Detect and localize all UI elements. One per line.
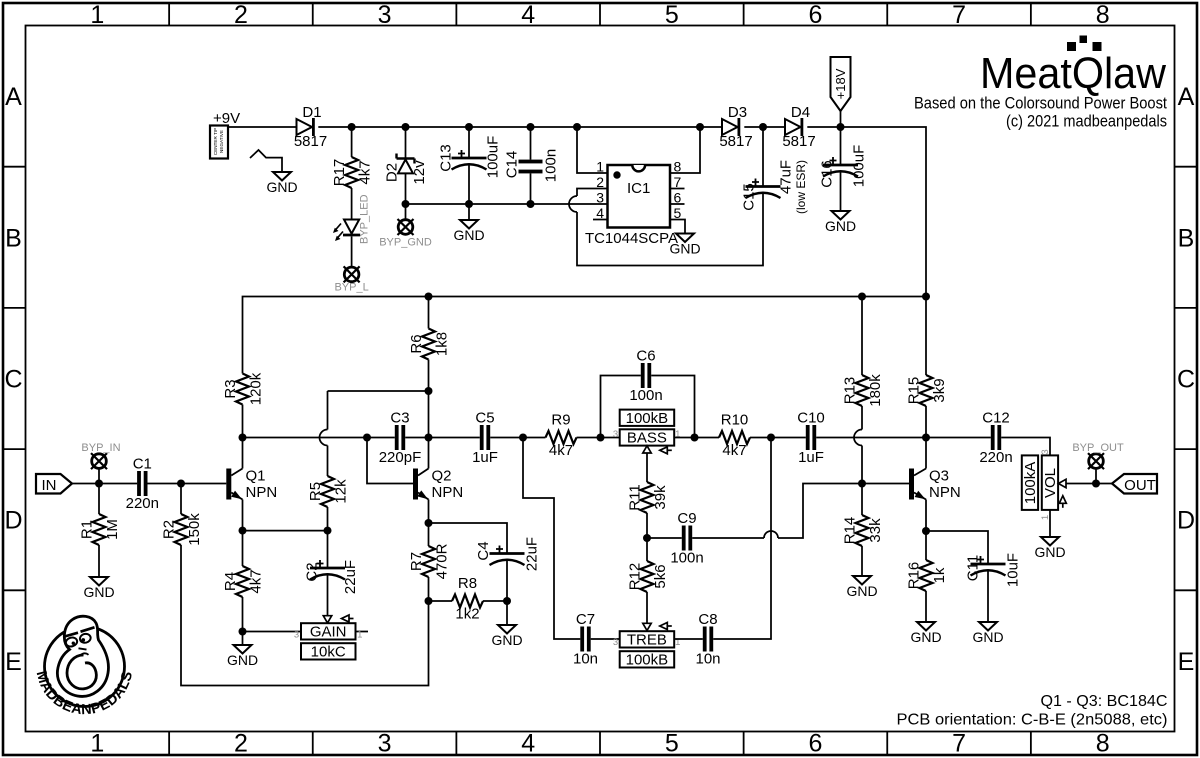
wire D1 to D3 rail — [318, 126, 722, 128]
svg-text:100n: 100n — [670, 550, 703, 567]
junction — [519, 434, 527, 442]
svg-text:4: 4 — [521, 1, 535, 29]
diode D3 — [722, 119, 738, 135]
resistor R14 — [856, 515, 869, 546]
wire C7 to TREB — [591, 638, 620, 640]
wire R8 right stub — [483, 600, 507, 602]
wire D2 to gnd rail — [405, 173, 407, 204]
svg-text:R10: R10 — [721, 412, 749, 429]
junction — [239, 434, 247, 442]
svg-text:R12: R12 — [627, 563, 644, 591]
svg-text:D2: D2 — [384, 163, 401, 182]
svg-text:PCB orientation: C-B-E (2n5088: PCB orientation: C-B-E (2n5088, etc) — [897, 712, 1168, 729]
capacitor C9 — [682, 526, 686, 551]
pad BYP_IN — [92, 454, 107, 469]
svg-text:GAIN: GAIN — [310, 623, 347, 640]
wire C13 bottom — [468, 164, 470, 205]
wire R17 top — [351, 127, 353, 157]
svg-text:1: 1 — [357, 630, 362, 641]
wire BASS wiper to R11 — [646, 453, 648, 482]
svg-text:39k: 39k — [652, 485, 669, 510]
wire BASS to C6 right — [674, 437, 719, 439]
ground jack — [273, 172, 291, 181]
wire R1 bottom — [98, 545, 100, 577]
signal line Q1 collector to C3 — [243, 437, 395, 439]
junction — [922, 434, 930, 442]
wire VOL wiper to OUT — [1066, 483, 1112, 485]
resistor R9 — [546, 431, 577, 444]
svg-text:BASS: BASS — [627, 430, 667, 447]
wire D2 top — [405, 127, 407, 158]
wire C16 bottom — [840, 171, 842, 212]
svg-text:4: 4 — [521, 730, 535, 758]
capacitor C13 — [452, 157, 487, 160]
junction — [643, 534, 651, 542]
resistor R7 — [422, 546, 435, 577]
wire R16 top — [925, 531, 927, 560]
ground C4/R8 — [498, 625, 516, 634]
pad BYP_GND — [398, 220, 413, 235]
wire C5 node to treble line — [523, 438, 580, 640]
wire hop pin2 over pin3 — [569, 196, 577, 212]
svg-text:180k: 180k — [867, 374, 884, 407]
svg-text:R7: R7 — [408, 552, 425, 571]
svg-text:CENTER TIP: CENTER TIP — [213, 128, 218, 155]
svg-text:BYP_L: BYP_L — [334, 282, 368, 294]
junction — [858, 480, 866, 488]
svg-text:3: 3 — [294, 630, 299, 641]
potentiometer TREB wiper arrow — [643, 623, 651, 630]
IC1 pin4 stub — [593, 219, 608, 221]
junction — [922, 527, 930, 535]
svg-text:NPN: NPN — [246, 484, 278, 501]
wire R14 top — [861, 484, 863, 516]
signal line R10 to C10 — [750, 437, 806, 439]
svg-text:5817: 5817 — [782, 133, 815, 150]
svg-text:5k6: 5k6 — [652, 564, 669, 588]
svg-text:Based on the Colorsound Power: Based on the Colorsound Power Boost — [914, 94, 1167, 113]
svg-text:1uF: 1uF — [472, 449, 498, 466]
wire R3 bottom — [242, 405, 244, 438]
wire emitter to C11 — [926, 531, 988, 564]
capacitor C14 — [519, 160, 543, 164]
capacitor C16 — [823, 164, 858, 167]
svg-text:C14: C14 — [504, 151, 521, 179]
svg-text:220pF: 220pF — [379, 449, 422, 466]
jack sleeve to ground — [250, 150, 282, 172]
svg-text:C13: C13 — [438, 144, 455, 172]
transistor Q2 — [413, 469, 418, 500]
wire R4 bottom — [242, 597, 244, 632]
svg-text:1uF: 1uF — [798, 449, 824, 466]
capacitor C6 — [641, 363, 645, 388]
IC1 pin6 stub — [670, 203, 685, 205]
svg-text:1k8: 1k8 — [434, 332, 451, 356]
resistor R17 — [345, 157, 358, 188]
ground C11 — [979, 622, 997, 631]
wire C2 to GAIN wiper — [327, 574, 329, 616]
svg-text:C4: C4 — [475, 541, 492, 560]
svg-text:E: E — [1178, 648, 1195, 676]
wire to BYP_GND — [405, 204, 407, 220]
svg-text:8: 8 — [1096, 730, 1110, 758]
svg-text:GND: GND — [83, 584, 114, 600]
svg-text:BYP_LED: BYP_LED — [359, 194, 371, 244]
svg-text:R14: R14 — [842, 517, 859, 545]
wire C4 bottom — [506, 559, 508, 601]
wire emitter to C4 — [429, 523, 508, 554]
resistor R15 — [920, 375, 933, 406]
svg-text:R8: R8 — [458, 575, 477, 592]
svg-text:BYP_OUT: BYP_OUT — [1072, 442, 1124, 454]
wire IC1 pin2 lower — [577, 193, 763, 266]
wire C2 top — [327, 531, 329, 568]
capacitor C7 — [580, 627, 584, 652]
svg-text:Q1 - Q3: BC184C: Q1 - Q3: BC184C — [1041, 693, 1168, 710]
wire hop R5 over signal line — [320, 430, 328, 446]
potentiometer TREB 100kB — [620, 631, 675, 647]
wire R1 top — [98, 484, 100, 515]
svg-text:D4: D4 — [791, 104, 810, 121]
LED BYP_LED — [344, 220, 359, 234]
svg-text:100n: 100n — [543, 149, 560, 182]
svg-text:100uF: 100uF — [485, 136, 502, 179]
capacitor C3 — [395, 425, 399, 450]
junction — [696, 123, 704, 131]
wire R13 lower — [861, 406, 863, 430]
wire Q1 emitter — [242, 500, 244, 531]
svg-text:3: 3 — [1040, 449, 1051, 454]
wire Q2 base drop — [367, 438, 413, 484]
svg-text:NEGATIVE: NEGATIVE — [219, 130, 224, 153]
junction — [402, 200, 410, 208]
wire R5 mid — [327, 446, 329, 477]
wire Q1 collector — [242, 438, 244, 469]
wire VOL pin1 to gnd — [1049, 510, 1051, 537]
svg-text:22uF: 22uF — [342, 560, 359, 594]
BASS direction arrow — [660, 447, 668, 454]
wire R7 top — [428, 523, 430, 546]
wire R6 top — [428, 297, 430, 329]
svg-text:GND: GND — [669, 241, 700, 257]
svg-text:R11: R11 — [627, 484, 644, 510]
svg-text:33k: 33k — [867, 518, 884, 543]
ground VOL — [1041, 537, 1059, 546]
GAIN direction arrow — [342, 615, 350, 622]
svg-text:1M: 1M — [104, 519, 121, 540]
svg-text:100kB: 100kB — [626, 651, 669, 668]
svg-text:C11: C11 — [965, 555, 982, 581]
svg-text:E: E — [5, 648, 22, 676]
wire C13 top — [468, 127, 470, 158]
svg-text:+18V: +18V — [833, 68, 848, 99]
svg-text:4: 4 — [596, 205, 604, 221]
connector OUT — [1112, 474, 1157, 494]
resistor R6 — [422, 329, 435, 360]
potentiometer BASS 100kB — [620, 429, 675, 445]
diode D4 — [785, 119, 801, 135]
svg-text:6: 6 — [674, 190, 682, 206]
wire IC1 pin5 — [670, 220, 685, 234]
svg-text:10n: 10n — [695, 651, 720, 668]
junction — [573, 123, 581, 131]
potentiometer BASS wiper arrow — [643, 446, 651, 453]
pad BYP_OUT — [1089, 454, 1104, 469]
resistor R10 — [719, 431, 750, 444]
resistor R11 — [641, 482, 654, 513]
svg-text:B: B — [1178, 224, 1195, 252]
wire Q3 emitter — [925, 500, 927, 532]
capacitor C11 — [971, 563, 1006, 566]
wire R15 top — [925, 297, 927, 376]
svg-text:1: 1 — [596, 159, 604, 175]
wire R7 bottom — [428, 577, 430, 601]
svg-text:R4: R4 — [222, 572, 239, 591]
IC U1 TC1044SCPA — [608, 165, 671, 228]
wire D3 to D4 — [744, 126, 785, 128]
svg-text:VOL: VOL — [1042, 468, 1059, 498]
resistor R16 — [920, 560, 933, 591]
potentiometer VOL 100kA — [1042, 455, 1058, 510]
capacitor C2 — [310, 567, 345, 570]
svg-text:R2: R2 — [161, 520, 178, 539]
svg-text:100kA: 100kA — [1022, 462, 1039, 505]
resistor R2 — [175, 514, 188, 545]
ground R4 — [234, 645, 252, 654]
resistor R5 — [321, 476, 334, 507]
svg-text:R1: R1 — [79, 520, 96, 539]
capacitor C4 — [490, 552, 525, 555]
svg-text:R5: R5 — [307, 482, 324, 501]
svg-text:GND: GND — [227, 652, 258, 668]
wire emitter node — [243, 530, 328, 532]
wire to gnd — [468, 204, 470, 220]
svg-text:2: 2 — [234, 730, 248, 758]
ground R16 — [917, 622, 935, 631]
wire R9 to BASS — [577, 437, 620, 439]
wire IN — [72, 483, 137, 485]
svg-text:100uF: 100uF — [851, 145, 868, 188]
capacitor C1 — [137, 471, 141, 496]
wire R8 left stub — [429, 600, 453, 602]
svg-text:D3: D3 — [728, 104, 747, 121]
svg-text:A: A — [1178, 83, 1195, 111]
wire +18V rail — [243, 297, 927, 374]
svg-text:150k: 150k — [186, 513, 203, 546]
svg-text:C9: C9 — [677, 510, 696, 527]
junction — [503, 597, 511, 605]
svg-text:4k7: 4k7 — [722, 442, 746, 459]
svg-text:3: 3 — [378, 1, 392, 29]
resistor R1 — [93, 514, 106, 545]
wire R6 bottom — [428, 360, 430, 392]
svg-text:Q2: Q2 — [432, 468, 452, 485]
wire D4 to corner — [807, 127, 926, 297]
wire C9 line to base riser — [778, 484, 909, 539]
svg-text:C2: C2 — [304, 562, 321, 581]
svg-text:IC1: IC1 — [627, 180, 650, 197]
wire R11 bottom — [646, 513, 648, 538]
signal line C3 to C5 — [405, 437, 480, 439]
svg-text:C8: C8 — [698, 611, 717, 628]
ground C16 — [832, 211, 850, 220]
wire C1 to base node — [148, 483, 227, 485]
wire to BYP_IN — [98, 468, 100, 483]
ground IC1 pin5 — [676, 234, 694, 243]
wire R2 to R8 node — [181, 545, 429, 686]
svg-text:4k7: 4k7 — [549, 442, 573, 459]
GAIN pin stubs — [356, 631, 369, 633]
connector +18V supply flag — [831, 57, 851, 111]
svg-text:D: D — [4, 507, 22, 535]
svg-text:220n: 220n — [979, 449, 1012, 466]
svg-text:4k7: 4k7 — [248, 569, 265, 593]
junction — [837, 123, 845, 131]
svg-text:BYP_IN: BYP_IN — [81, 442, 120, 454]
ground R14 — [853, 576, 871, 585]
wire to gnd — [242, 632, 244, 646]
junction — [425, 519, 433, 527]
resistor R12 — [641, 561, 654, 592]
svg-text:220n: 220n — [126, 495, 159, 512]
svg-text:C: C — [1177, 366, 1195, 394]
svg-text:5817: 5817 — [294, 133, 327, 150]
wire C14 bottom — [530, 173, 532, 204]
wire C9 left — [647, 537, 682, 539]
wire TREB to C8 — [674, 638, 703, 640]
svg-text:(low ESR): (low ESR) — [794, 160, 808, 214]
svg-text:3k9: 3k9 — [931, 378, 948, 402]
madbeanpedals logo — [45, 616, 125, 706]
wire R13 top — [861, 297, 863, 376]
transistor Q3 — [909, 469, 914, 500]
ground — [460, 220, 478, 229]
svg-text:7: 7 — [674, 174, 682, 190]
wire C9 to hop — [692, 537, 764, 539]
svg-text:GND: GND — [1034, 544, 1065, 560]
svg-text:3: 3 — [613, 637, 618, 648]
wire R12 to TREB wiper — [646, 592, 648, 623]
svg-text:6: 6 — [808, 1, 822, 29]
svg-text:C1: C1 — [133, 456, 152, 473]
svg-text:GND: GND — [266, 179, 297, 195]
svg-text:2: 2 — [596, 174, 604, 190]
transistor Q1 — [226, 469, 231, 500]
junction — [691, 434, 699, 442]
svg-text:B: B — [5, 224, 22, 252]
wire C11 bottom — [987, 570, 989, 623]
svg-text:C5: C5 — [475, 410, 494, 427]
svg-text:OUT: OUT — [1124, 477, 1156, 494]
diode D1 — [297, 119, 313, 135]
wire +9V to D1 — [228, 126, 297, 128]
svg-text:C10: C10 — [797, 410, 825, 427]
svg-text:TREB: TREB — [627, 631, 667, 648]
svg-text:7: 7 — [952, 730, 966, 758]
svg-text:1k: 1k — [931, 567, 948, 583]
svg-text:NPN: NPN — [432, 484, 464, 501]
svg-text:Q3: Q3 — [929, 468, 949, 485]
svg-text:12k: 12k — [333, 479, 350, 504]
svg-text:D1: D1 — [302, 104, 321, 121]
wire Q3 collector — [925, 438, 927, 469]
wire Q2 collector — [428, 391, 430, 469]
junction — [95, 480, 103, 488]
wire R2 top — [180, 484, 182, 515]
svg-text:GND: GND — [910, 629, 941, 645]
wire C6 loop left — [601, 376, 641, 438]
capacitor C12 — [991, 425, 995, 450]
wire LED to BYP_L — [351, 236, 353, 267]
ground R1 — [90, 577, 108, 586]
potentiometer GAIN wiper arrow — [323, 616, 331, 623]
svg-text:GND: GND — [491, 632, 522, 648]
wire C16 top — [840, 127, 842, 165]
svg-text:1: 1 — [90, 730, 104, 758]
svg-text:BYP_GND: BYP_GND — [379, 237, 432, 249]
svg-text:NPN: NPN — [929, 484, 961, 501]
svg-text:6: 6 — [808, 730, 822, 758]
resistor R3 — [236, 374, 249, 405]
svg-text:4k7: 4k7 — [357, 160, 374, 184]
wire +18V entry — [840, 111, 842, 127]
svg-text:5: 5 — [665, 730, 679, 758]
svg-text:5817: 5817 — [719, 133, 752, 150]
junction — [465, 200, 473, 208]
svg-text:R17: R17 — [331, 159, 348, 187]
svg-text:C12: C12 — [982, 410, 1010, 427]
wire R5 upper link — [328, 390, 429, 392]
svg-text:5: 5 — [665, 1, 679, 29]
svg-text:100n: 100n — [629, 387, 662, 404]
wire R14 bottom — [861, 546, 863, 576]
wire to gnd — [506, 601, 508, 625]
junction — [922, 293, 930, 301]
svg-text:R16: R16 — [906, 562, 923, 590]
svg-text:GND: GND — [972, 629, 1003, 645]
junction — [425, 293, 433, 301]
junction — [527, 123, 535, 131]
logo dots above Q — [1067, 42, 1076, 51]
capacitor C10 — [806, 425, 810, 450]
junction — [1092, 480, 1100, 488]
capacitor C5 — [480, 425, 484, 450]
svg-text:22uF: 22uF — [524, 537, 541, 571]
svg-text:C15: C15 — [741, 183, 758, 211]
svg-text:8: 8 — [1096, 1, 1110, 29]
svg-text:100kB: 100kB — [626, 410, 669, 427]
junction — [239, 628, 247, 636]
wire R12 top — [646, 538, 648, 561]
svg-text:R15: R15 — [906, 377, 923, 405]
gnd rail — [406, 203, 608, 205]
potentiometer GAIN 10kC — [301, 623, 356, 639]
junction — [527, 200, 535, 208]
resistor R4 — [236, 566, 249, 597]
svg-text:3: 3 — [613, 429, 618, 440]
svg-text:GND: GND — [453, 227, 484, 243]
svg-text:120k: 120k — [248, 372, 265, 405]
wire Q2 emitter — [428, 500, 430, 524]
svg-text:MeatQlaw: MeatQlaw — [980, 49, 1166, 98]
TREB direction arrow — [660, 623, 668, 630]
junction — [363, 434, 371, 442]
IC1 pin7 stub — [670, 188, 685, 190]
svg-text:D: D — [1177, 507, 1195, 535]
svg-text:1: 1 — [90, 1, 104, 29]
wire R5 top — [327, 391, 329, 430]
svg-text:2: 2 — [234, 1, 248, 29]
